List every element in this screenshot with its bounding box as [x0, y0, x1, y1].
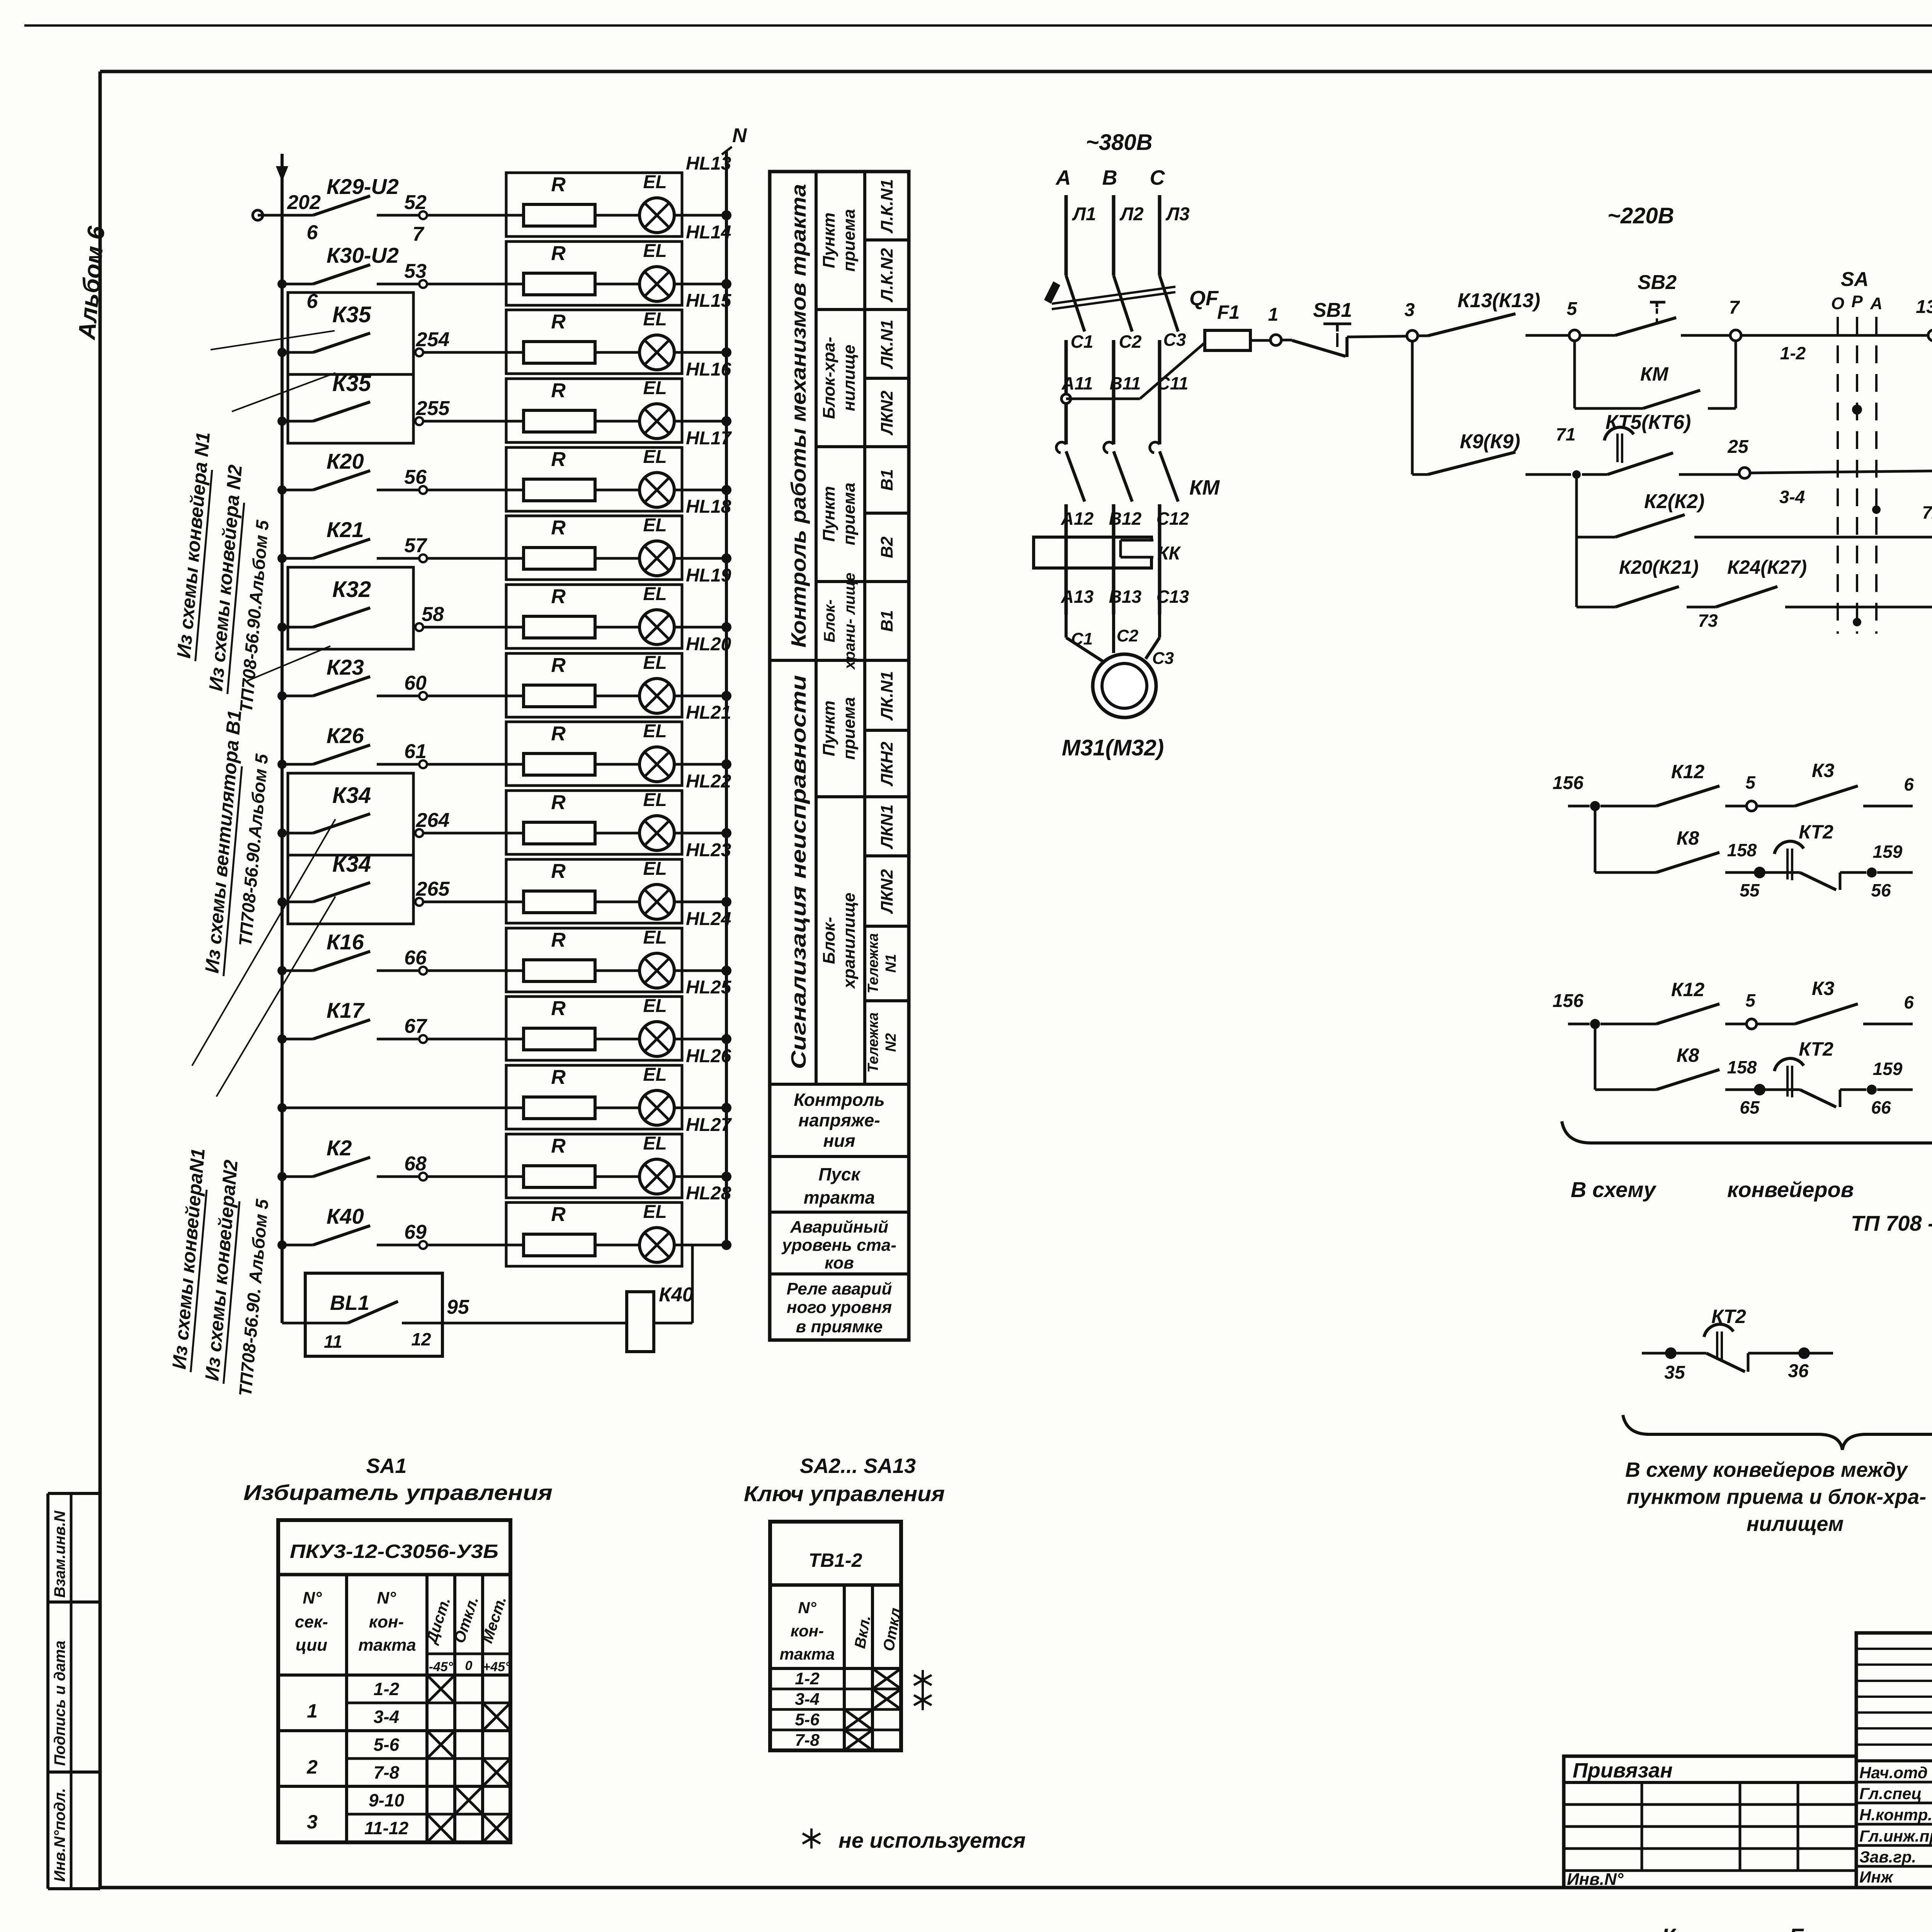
svg-text:HL22: HL22 [686, 771, 731, 792]
svg-text:К35: К35 [332, 371, 371, 396]
svg-text:N1: N1 [883, 954, 899, 973]
svg-text:С3: С3 [1163, 330, 1186, 350]
svg-text:1-2: 1-2 [1780, 343, 1806, 363]
svg-text:ции: ции [296, 1636, 327, 1655]
svg-text:56: 56 [1871, 880, 1891, 900]
svg-text:КТ2: КТ2 [1799, 1038, 1833, 1060]
svg-text:К32: К32 [332, 577, 371, 602]
svg-text:HL19: HL19 [686, 565, 731, 586]
svg-text:Н.контр.: Н.контр. [1859, 1806, 1932, 1824]
svg-text:КТ5(КТ6): КТ5(КТ6) [1605, 411, 1691, 434]
svg-text:ЛК.N1: ЛК.N1 [878, 320, 896, 369]
svg-text:7: 7 [413, 223, 425, 245]
svg-text:Пункт: Пункт [820, 213, 838, 268]
svg-text:73: 73 [1698, 611, 1718, 631]
svg-text:265: 265 [416, 878, 450, 900]
svg-text:SA1: SA1 [366, 1454, 406, 1478]
svg-text:К13(К13): К13(К13) [1458, 289, 1540, 312]
svg-text:конвейеров: конвейеров [1727, 1177, 1854, 1202]
svg-text:EL: EL [643, 721, 667, 742]
svg-text:такта: такта [358, 1636, 416, 1655]
svg-text:Реле аварий: Реле аварий [787, 1279, 892, 1298]
svg-text:1: 1 [307, 1700, 318, 1722]
svg-text:В11: В11 [1110, 373, 1141, 393]
svg-text:К8: К8 [1677, 1044, 1699, 1066]
svg-text:сек-: сек- [295, 1612, 328, 1631]
svg-text:ЛКN2: ЛКN2 [878, 390, 896, 435]
svg-text:КМ: КМ [1189, 476, 1220, 499]
svg-text:6: 6 [1904, 992, 1914, 1012]
svg-text:приема: приема [840, 209, 859, 272]
svg-text:EL: EL [643, 927, 667, 948]
svg-text:6: 6 [307, 221, 318, 244]
svg-text:А12: А12 [1061, 509, 1094, 529]
svg-text:нилищем: нилищем [1747, 1512, 1844, 1536]
svg-text:158: 158 [1727, 840, 1757, 860]
svg-text:R: R [551, 997, 566, 1020]
svg-text:ТП 708 - 56.90.: ТП 708 - 56.90. [1851, 1211, 1932, 1235]
svg-text:R: R [551, 1203, 566, 1226]
svg-text:72: 72 [1922, 502, 1932, 522]
svg-text:В13: В13 [1109, 587, 1142, 607]
svg-text:EL: EL [643, 996, 667, 1016]
svg-text:К34: К34 [332, 852, 371, 877]
svg-text:В схему конвейеров между: В схему конвейеров между [1625, 1458, 1908, 1481]
svg-text:Л.К.N2: Л.К.N2 [878, 248, 896, 303]
svg-text:5-6: 5-6 [795, 1710, 820, 1729]
svg-text:Л3: Л3 [1165, 204, 1190, 224]
svg-text:EL: EL [643, 378, 667, 398]
svg-text:R: R [551, 585, 566, 608]
svg-text:В1: В1 [878, 469, 896, 491]
svg-text:3-4: 3-4 [374, 1707, 399, 1727]
svg-text:Р: Р [1851, 292, 1863, 311]
svg-text:кон-: кон- [791, 1622, 824, 1640]
svg-text:202: 202 [287, 191, 321, 214]
svg-text:А: А [1055, 166, 1071, 189]
svg-text:храни- лище: храни- лище [841, 573, 858, 670]
svg-text:SB1: SB1 [1313, 299, 1352, 321]
svg-text:R: R [551, 654, 566, 677]
svg-text:К40: К40 [327, 1204, 364, 1228]
svg-text:К30-U2: К30-U2 [327, 243, 399, 267]
svg-text:EL: EL [643, 859, 667, 879]
svg-text:В1: В1 [878, 610, 896, 632]
svg-text:+45°: +45° [483, 1660, 510, 1674]
svg-text:264: 264 [416, 809, 450, 832]
svg-text:К3: К3 [1812, 978, 1835, 999]
svg-text:HL17: HL17 [686, 428, 732, 449]
svg-text:Блок-: Блок- [821, 599, 838, 642]
svg-text:25: 25 [1727, 437, 1749, 457]
svg-text:N2: N2 [883, 1033, 899, 1052]
svg-text:ЛКН2: ЛКН2 [878, 742, 896, 787]
svg-text:HL24: HL24 [686, 909, 731, 929]
svg-text:EL: EL [643, 1065, 667, 1085]
svg-text:R: R [551, 448, 566, 471]
svg-text:Сигнализация неисправности: Сигнализация неисправности [787, 675, 810, 1069]
svg-text:11: 11 [324, 1332, 342, 1352]
svg-text:5: 5 [1745, 772, 1756, 793]
svg-text:71: 71 [1556, 424, 1575, 444]
svg-text:EL: EL [643, 515, 667, 536]
svg-text:12: 12 [411, 1329, 431, 1349]
svg-text:К16: К16 [327, 930, 364, 954]
svg-text:BL1: BL1 [330, 1291, 369, 1315]
svg-text:К2(К2): К2(К2) [1644, 490, 1704, 513]
svg-text:КМ: КМ [1640, 363, 1669, 385]
svg-text:приема: приема [840, 483, 859, 545]
svg-text:156: 156 [1553, 773, 1583, 793]
svg-text:EL: EL [643, 447, 667, 467]
svg-text:HL25: HL25 [686, 977, 732, 998]
svg-text:А13: А13 [1061, 587, 1094, 607]
svg-text:5-6: 5-6 [374, 1735, 400, 1755]
svg-text:~380В: ~380В [1086, 130, 1153, 155]
svg-text:EL: EL [643, 172, 667, 192]
svg-text:R: R [551, 723, 566, 745]
svg-text:С1: С1 [1071, 332, 1094, 352]
svg-text:3: 3 [1405, 300, 1415, 320]
svg-text:К12: К12 [1671, 761, 1705, 782]
svg-text:R: R [551, 311, 566, 333]
svg-text:Ключ управления: Ключ управления [744, 1481, 945, 1506]
svg-text:В схему: В схему [1571, 1177, 1657, 1202]
svg-text:11-12: 11-12 [364, 1818, 409, 1838]
svg-text:66: 66 [1871, 1097, 1891, 1117]
svg-text:36: 36 [1788, 1361, 1809, 1381]
svg-text:ПКУ3-12-С3056-У3Б: ПКУ3-12-С3056-У3Б [290, 1541, 498, 1562]
svg-text:HL14: HL14 [686, 222, 731, 243]
svg-text:М31(М32): М31(М32) [1062, 735, 1164, 760]
svg-text:R: R [551, 860, 566, 883]
svg-text:КТ2: КТ2 [1799, 821, 1833, 843]
svg-text:HL16: HL16 [686, 359, 731, 380]
svg-text:HL20: HL20 [686, 634, 731, 655]
svg-text:N: N [732, 124, 747, 147]
svg-text:пунктом приема и блок-хра-: пунктом приема и блок-хра- [1627, 1485, 1926, 1509]
svg-text:ного уровня: ного уровня [787, 1298, 892, 1317]
svg-text:не используется: не используется [838, 1828, 1026, 1852]
svg-text:7-8: 7-8 [374, 1762, 400, 1782]
svg-text:Пункт: Пункт [820, 486, 838, 542]
svg-text:13: 13 [1916, 297, 1932, 317]
svg-text:5: 5 [1745, 990, 1756, 1010]
svg-text:Зав.гр.: Зав.гр. [1859, 1848, 1916, 1866]
svg-text:N°: N° [377, 1588, 396, 1607]
svg-text:С2: С2 [1119, 332, 1142, 352]
svg-text:R: R [551, 173, 566, 196]
svg-text:О: О [1831, 294, 1844, 313]
svg-text:С13: С13 [1156, 587, 1189, 607]
svg-text:С2: С2 [1117, 626, 1139, 645]
svg-text:К8: К8 [1677, 827, 1699, 849]
svg-text:HL27: HL27 [686, 1115, 732, 1135]
svg-text:Инв.N°: Инв.N° [1567, 1870, 1624, 1889]
svg-text:С1: С1 [1071, 629, 1093, 648]
svg-text:ЛК.N1: ЛК.N1 [878, 671, 896, 721]
svg-text:R: R [551, 1066, 566, 1088]
svg-text:ния: ния [823, 1131, 855, 1151]
svg-text:-45°: -45° [429, 1660, 453, 1674]
svg-text:В: В [1102, 166, 1117, 189]
svg-text:В2: В2 [878, 536, 896, 558]
svg-text:С: С [1150, 166, 1165, 189]
svg-text:9-10: 9-10 [369, 1790, 404, 1810]
svg-text:6: 6 [307, 290, 318, 313]
svg-text:EL: EL [643, 653, 667, 673]
svg-text:К40: К40 [659, 1284, 694, 1306]
svg-text:К3: К3 [1812, 760, 1835, 781]
svg-text:Инв.N°подл.: Инв.N°подл. [51, 1788, 68, 1882]
svg-text:напряже-: напряже- [798, 1110, 880, 1130]
svg-text:55: 55 [1740, 880, 1760, 900]
svg-text:Нач.отд: Нач.отд [1859, 1764, 1928, 1782]
svg-text:95: 95 [447, 1296, 469, 1318]
svg-text:Привязан: Привязан [1573, 1759, 1673, 1782]
svg-text:6: 6 [1904, 774, 1914, 794]
svg-text:А: А [1870, 294, 1883, 313]
svg-text:EL: EL [643, 1133, 667, 1154]
svg-text:N°: N° [303, 1588, 322, 1607]
svg-text:HL23: HL23 [686, 840, 731, 861]
svg-text:Подпись и дата: Подпись и дата [51, 1641, 68, 1766]
svg-text:Тележка: Тележка [865, 933, 881, 993]
svg-text:С11: С11 [1157, 373, 1189, 393]
svg-text:Гл.инж.пр: Гл.инж.пр [1859, 1827, 1932, 1845]
svg-text:R: R [551, 791, 566, 814]
svg-text:Л.К.N1: Л.К.N1 [878, 179, 896, 234]
svg-text:1-2: 1-2 [795, 1669, 820, 1688]
svg-text:К20: К20 [327, 449, 364, 473]
svg-text:ЛКN2: ЛКN2 [878, 869, 896, 914]
svg-text:SA2... SA13: SA2... SA13 [800, 1454, 916, 1478]
svg-text:159: 159 [1873, 1059, 1903, 1079]
svg-text:Аварийный: Аварийный [790, 1218, 888, 1236]
svg-text:К35: К35 [332, 302, 371, 327]
svg-text:уровень ста-: уровень ста- [781, 1236, 896, 1255]
svg-text:2: 2 [306, 1756, 318, 1778]
svg-text:Блок-хра-: Блок-хра- [820, 337, 838, 419]
svg-text:58: 58 [422, 603, 444, 626]
svg-text:QF: QF [1189, 287, 1219, 310]
svg-text:R: R [551, 379, 566, 402]
svg-text:SA: SA [1841, 268, 1869, 291]
svg-text:К21: К21 [327, 517, 364, 542]
svg-text:К24(К27): К24(К27) [1727, 556, 1807, 578]
svg-text:R: R [551, 517, 566, 539]
svg-text:3-4: 3-4 [795, 1690, 820, 1709]
svg-text:7-8: 7-8 [795, 1731, 820, 1750]
svg-text:R: R [551, 929, 566, 951]
svg-text:Л1: Л1 [1072, 204, 1096, 224]
svg-text:В12: В12 [1109, 509, 1142, 529]
svg-text:кон-: кон- [369, 1612, 404, 1631]
svg-text:в приямке: в приямке [796, 1317, 883, 1336]
svg-text:С3: С3 [1152, 649, 1174, 668]
svg-text:HL21: HL21 [686, 702, 731, 723]
svg-text:Копировал Белоусова: Копировал Белоусова [1662, 1924, 1909, 1932]
svg-text:~220В: ~220В [1607, 203, 1674, 228]
svg-text:R: R [551, 1135, 566, 1157]
svg-text:N°: N° [798, 1599, 816, 1617]
svg-text:Пуск: Пуск [818, 1164, 861, 1184]
svg-text:К34: К34 [332, 783, 371, 808]
svg-text:HL18: HL18 [686, 497, 731, 517]
svg-text:ТВ1-2: ТВ1-2 [809, 1549, 862, 1571]
svg-text:35: 35 [1664, 1362, 1685, 1383]
svg-text:приема: приема [840, 697, 859, 760]
svg-text:ков: ков [825, 1253, 854, 1272]
svg-text:HL26: HL26 [686, 1046, 731, 1066]
svg-text:К26: К26 [327, 723, 364, 748]
svg-text:К12: К12 [1671, 979, 1705, 1000]
svg-text:65: 65 [1740, 1097, 1760, 1117]
svg-text:такта: такта [780, 1645, 835, 1663]
svg-text:EL: EL [643, 790, 667, 810]
svg-text:254: 254 [416, 328, 450, 351]
svg-text:Инж: Инж [1859, 1868, 1894, 1886]
svg-text:Контроль: Контроль [794, 1090, 884, 1110]
svg-text:HL15: HL15 [686, 291, 732, 311]
svg-text:КК: КК [1157, 543, 1182, 564]
svg-text:1-2: 1-2 [374, 1679, 400, 1699]
svg-text:К20(К21): К20(К21) [1619, 556, 1699, 578]
svg-text:К17: К17 [327, 998, 365, 1022]
svg-text:К9(К9): К9(К9) [1460, 430, 1520, 453]
svg-text:К2: К2 [327, 1136, 352, 1160]
svg-text:F1: F1 [1217, 301, 1240, 323]
svg-text:HL13: HL13 [686, 153, 731, 174]
svg-text:К23: К23 [327, 655, 364, 679]
svg-text:158: 158 [1727, 1057, 1757, 1077]
svg-text:Блок-: Блок- [820, 917, 838, 964]
svg-text:7: 7 [1729, 298, 1740, 318]
svg-text:С12: С12 [1156, 509, 1189, 529]
svg-text:0: 0 [465, 1658, 473, 1673]
svg-text:HL28: HL28 [686, 1183, 731, 1204]
svg-text:Взам.инв.N: Взам.инв.N [51, 1510, 68, 1598]
svg-text:хранилище: хранилище [840, 893, 859, 989]
svg-text:Гл.спец: Гл.спец [1859, 1784, 1922, 1803]
svg-text:5: 5 [1567, 299, 1578, 319]
svg-text:нилище: нилище [840, 345, 859, 411]
svg-text:156: 156 [1553, 991, 1583, 1011]
svg-text:3-4: 3-4 [1779, 487, 1805, 507]
svg-text:Избиратель управления: Избиратель управления [243, 1480, 553, 1505]
svg-text:К29-U2: К29-U2 [327, 174, 399, 199]
svg-text:тракта: тракта [804, 1187, 875, 1207]
svg-text:Л2: Л2 [1119, 204, 1144, 224]
svg-text:EL: EL [643, 241, 667, 261]
svg-text:R: R [551, 242, 566, 265]
svg-text:Тележка: Тележка [865, 1012, 881, 1073]
svg-text:Пункт: Пункт [820, 701, 838, 756]
svg-text:159: 159 [1873, 842, 1903, 862]
svg-text:SB2: SB2 [1638, 271, 1677, 294]
svg-text:3: 3 [307, 1811, 318, 1833]
svg-text:255: 255 [416, 397, 450, 420]
svg-text:EL: EL [643, 309, 667, 330]
svg-text:EL: EL [643, 584, 667, 604]
svg-text:1: 1 [1268, 304, 1279, 325]
svg-text:ЛКN1: ЛКN1 [878, 804, 896, 850]
svg-text:Контроль работы механизмов тра: Контроль работы механизмов тракта [787, 184, 810, 648]
svg-text:EL: EL [643, 1202, 667, 1222]
svg-text:А11: А11 [1061, 373, 1093, 393]
